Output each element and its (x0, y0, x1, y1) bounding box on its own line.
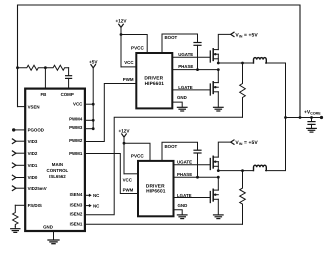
IC U2 driver HIP6601 box (top) (136, 53, 172, 108)
label: U3 name DRIVER HIP6601 (146, 183, 166, 194)
resistor R2 (FB to COMP) (45, 65, 68, 70)
inductor L2 phase 2 (254, 165, 267, 170)
resistor R4 phase 1 current sense (240, 63, 246, 117)
wire: L1 to VCORE rail (266, 63, 286, 118)
pin: ISEN3 NC stub (85, 204, 92, 207)
svg-text:FB: FB (41, 92, 47, 97)
svg-text:VSEN: VSEN (28, 104, 40, 109)
wire: L2 to VCORE rail (266, 118, 286, 171)
pin: ISEN4 NC stub (85, 194, 92, 197)
wire: VIN to Q3 drain (218, 142, 230, 157)
wire: U2 PHASE line (172, 68, 219, 71)
node: FB junction (44, 66, 47, 69)
node: feedback divider junction (16, 66, 19, 69)
svg-text:ISEN3: ISEN3 (70, 202, 83, 207)
connector: VIN phase 2 chevron (231, 140, 234, 144)
wire: U2 VCC from +12V (121, 66, 136, 68)
svg-text:VID25mV: VID25mV (28, 186, 47, 191)
svg-text:ISL6562: ISL6562 (49, 174, 66, 179)
svg-text:VID1: VID1 (28, 163, 38, 168)
wire: +VCORE rail (284, 116, 323, 119)
connector: VID2 input chevron (12, 151, 25, 156)
wire: FB drop to pin (44, 68, 46, 89)
svg-text:+12V: +12V (115, 18, 127, 23)
svg-text:BOOT: BOOT (165, 144, 178, 149)
transistor Q1 upper MOSFET phase 1 (210, 49, 218, 63)
wire: PWM4 stub tied to +5V (85, 119, 95, 122)
wire: PWM3 stub tied to +5V (85, 127, 95, 130)
wire: U3 VCC from +12V (124, 173, 138, 175)
ground: U3 GND symbol (177, 215, 187, 219)
svg-text:HIP6601: HIP6601 (145, 81, 165, 87)
svg-text:FS/DIS: FS/DIS (28, 203, 42, 208)
svg-text:VID0: VID0 (28, 175, 38, 180)
inductor L1 phase 1 (254, 58, 267, 63)
svg-text:GND: GND (43, 225, 53, 230)
transistor Q4 lower MOSFET phase 2 (210, 177, 218, 215)
svg-text:NC: NC (93, 193, 100, 198)
supply: +12V arrow for U2 (119, 24, 124, 67)
connector: VID25mV input chevron (12, 186, 25, 191)
transistor Q3 upper MOSFET phase 2 (210, 156, 218, 170)
svg-text:CONTROL: CONTROL (47, 168, 69, 173)
svg-text:MAIN: MAIN (52, 162, 63, 167)
ground: U2 GND symbol (177, 107, 187, 111)
label: U2 name DRIVER HIP6601 (144, 76, 164, 87)
svg-text:PVCC: PVCC (131, 154, 144, 159)
wire: U3 PHASE line (174, 176, 220, 179)
svg-text:PWM3: PWM3 (69, 125, 83, 130)
svg-text:PHASE: PHASE (177, 172, 192, 177)
IC U3 driver HIP6601 box (bottom) (138, 161, 174, 216)
wire: U2 UGATE to Q1 gate (172, 56, 210, 58)
wire: FS/DIS pin to resistor (15, 204, 25, 206)
resistor R3 (FS/DIS to ground) (13, 205, 18, 226)
svg-text:BOOT: BOOT (165, 35, 178, 40)
ground: Q2 source ground (214, 107, 224, 111)
wire: U2 LGATE to Q2 gate (172, 89, 210, 91)
svg-text:VCC: VCC (123, 178, 133, 183)
svg-text:LGATE: LGATE (177, 193, 192, 198)
svg-text:UGATE: UGATE (177, 160, 192, 165)
svg-text:PGOOD: PGOOD (28, 128, 44, 133)
svg-text:+5V: +5V (89, 60, 98, 65)
svg-text:VCC: VCC (73, 102, 83, 107)
svg-text:PWM: PWM (123, 187, 134, 192)
ground: controller GND (48, 231, 59, 244)
wire: U2 GND pin (172, 102, 182, 107)
svg-text:DRIVER: DRIVER (146, 183, 165, 189)
svg-text:ISEN4: ISEN4 (70, 192, 83, 197)
ground: VCORE capacitor ground (307, 128, 317, 132)
wire: U3 GND pin (174, 210, 183, 215)
svg-text:LGATE: LGATE (178, 85, 193, 90)
svg-text:HIP6601: HIP6601 (146, 189, 166, 195)
wire: PWM2 to driver U2 PWM (85, 84, 136, 142)
svg-text:ISEN1: ISEN1 (70, 221, 83, 226)
capacitor C1 (COMP compensation) (66, 68, 72, 89)
wire: phase 1 node to inductor (217, 62, 254, 65)
svg-text:NC: NC (93, 203, 100, 208)
svg-text:PWM4: PWM4 (69, 117, 83, 122)
connector: VID0 input chevron (12, 175, 25, 180)
connector: VID3 input chevron (12, 139, 25, 144)
wire: U3 UGATE to Q3 gate (174, 164, 210, 166)
svg-text:PWM1: PWM1 (69, 151, 83, 156)
wire: PWM1 to driver U3 PWM (85, 154, 138, 194)
connector: VID1 input chevron (12, 163, 25, 168)
capacitor C2 (U2 bootstrap) (194, 43, 201, 72)
wire: U2 BOOT loop (162, 34, 198, 53)
TEXT-DRIVERS (115, 18, 321, 207)
svg-text:VCC: VCC (124, 60, 134, 65)
ground: FS/DIS resistor ground (11, 226, 20, 232)
wire: U3 LGATE to Q4 gate (174, 197, 210, 199)
wire: VCORE feedback loop top and sides (18, 5, 301, 118)
terminal: PGOOD output dot (12, 128, 25, 131)
svg-text:PVCC: PVCC (131, 46, 144, 51)
svg-text:COMP: COMP (61, 92, 74, 97)
capacitor C3 (U3 bootstrap) (194, 150, 201, 178)
svg-text:VID3: VID3 (28, 139, 38, 144)
ground: Q4 source ground (214, 215, 224, 219)
wire: VCC stub controller (85, 103, 95, 106)
svg-text:PWM: PWM (123, 77, 134, 82)
svg-text:GND: GND (178, 203, 188, 208)
supply: +5V arrow (91, 65, 96, 129)
wire: U2 PVCC from +12V (121, 35, 147, 54)
svg-text:PHASE: PHASE (178, 64, 193, 69)
supply: +12V arrow for U3 (122, 134, 127, 174)
svg-text:UGATE: UGATE (178, 52, 193, 57)
svg-text:DRIVER: DRIVER (144, 76, 163, 82)
wire: ISEN1 to phase 2 sense resistor (85, 223, 243, 225)
wire: U3 BOOT loop (162, 142, 198, 161)
transistor Q2 lower MOSFET phase 1 (210, 70, 218, 108)
wire: ISEN2 to phase 1 sense resistor (85, 117, 243, 215)
connector: VIN phase 1 chevron (231, 32, 234, 36)
label: IC name MAIN CONTROL ISL6562 (47, 162, 69, 179)
wire: phase 2 node to inductor (217, 169, 254, 172)
svg-text:PWM2: PWM2 (69, 138, 83, 143)
svg-text:VID2: VID2 (28, 151, 38, 156)
resistor R5 phase 2 current sense (240, 171, 246, 225)
capacitor C4 (VCORE bulk) (308, 118, 315, 129)
TEXT-CONTROLLER (28, 60, 101, 230)
IC U1 main controller ISL6562 box (25, 89, 85, 231)
svg-text:GND: GND (177, 95, 187, 100)
resistor R1 (VSEN node to FB) (18, 65, 46, 70)
svg-text:ISEN2: ISEN2 (70, 212, 83, 217)
wire: VIN to Q1 drain (218, 34, 230, 49)
wire: U3 PVCC from +12V (124, 143, 150, 161)
svg-text:+12V: +12V (118, 128, 130, 133)
